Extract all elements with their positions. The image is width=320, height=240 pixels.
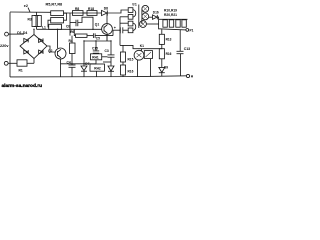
terminal X1 <box>5 32 24 36</box>
svg-text:tr1: tr1 <box>132 2 137 6</box>
svg-text:C8: C8 <box>66 25 70 29</box>
resistor R16 <box>121 62 134 77</box>
diode D16 <box>149 11 159 30</box>
svg-text:P1: P1 <box>190 29 194 33</box>
diode D2 <box>39 38 43 42</box>
winding W3 <box>140 21 147 28</box>
svg-text:H: H <box>191 75 194 79</box>
wire C8 drop <box>69 13 71 36</box>
pin 4 <box>128 28 133 33</box>
diode D3 <box>24 50 28 54</box>
resistor R4 <box>69 36 76 65</box>
wire winding left link <box>141 9 143 24</box>
terminal P1 <box>186 29 194 33</box>
wire collector drop <box>57 29 59 48</box>
svg-text:R16: R16 <box>128 70 134 74</box>
wire base bus <box>37 28 102 30</box>
svg-text:D1-D4: D1-D4 <box>17 31 27 35</box>
svg-text:D7: D7 <box>85 62 89 66</box>
svg-text:R3: R3 <box>28 18 32 22</box>
wire Q1 emitter joint <box>106 36 108 41</box>
diode D8 <box>102 7 109 16</box>
wire mid node <box>84 40 111 42</box>
wire left vertical <box>9 12 11 77</box>
diode D11 <box>108 66 114 77</box>
svg-text:R20,R21: R20,R21 <box>164 13 177 17</box>
svg-text:R15: R15 <box>128 58 134 62</box>
svg-text:D8: D8 <box>104 7 108 11</box>
terminal X2 <box>4 61 17 65</box>
svg-text:220v: 220v <box>0 44 9 48</box>
svg-text:R6: R6 <box>70 30 74 34</box>
capacitor C8 <box>66 17 93 29</box>
svg-text:Q2: Q2 <box>48 49 53 53</box>
winding arc A <box>133 10 136 18</box>
resistor R13 <box>159 29 171 44</box>
wire winding W3 out <box>146 23 158 25</box>
resistor R3 <box>28 12 40 26</box>
svg-text:R10,R19: R10,R19 <box>164 8 177 12</box>
svg-text:R5,R7,R8: R5,R7,R8 <box>46 2 63 6</box>
svg-text:C13: C13 <box>184 47 190 51</box>
resistors R10,R19,R20,R21 <box>159 8 188 27</box>
pin 3 <box>128 21 133 26</box>
capacitor C12 <box>113 26 128 36</box>
wire relay rail <box>120 45 162 48</box>
resistors R5,R7,R8 chain <box>46 2 67 29</box>
resistor R14 <box>159 44 171 58</box>
svg-text:RH2: RH2 <box>94 66 101 70</box>
wire primary drop <box>119 17 121 46</box>
junction dots <box>33 29 120 65</box>
wire bottom rail <box>10 76 186 77</box>
svg-text:RH1: RH1 <box>92 56 99 60</box>
terminal H <box>186 74 193 78</box>
winding arc B <box>133 23 136 31</box>
resistor RH1 <box>91 54 102 60</box>
bridge rectifier D1-D4 <box>17 29 47 63</box>
fuse R1 <box>17 60 34 73</box>
resistor R8 <box>73 7 84 15</box>
svg-text:+: + <box>114 26 117 30</box>
node e2 <box>24 4 30 12</box>
pin 1 <box>128 8 133 13</box>
relay K1 <box>134 44 152 77</box>
wire P1 rail <box>159 29 186 30</box>
wire RH2 to C3 column <box>103 61 111 63</box>
winding W2 <box>142 13 149 20</box>
capacitor C3 <box>102 41 115 66</box>
svg-text:R16: R16 <box>166 52 172 56</box>
svg-text:K1: K1 <box>140 44 144 48</box>
resistor R6 <box>70 29 93 37</box>
transistor Q2 <box>48 48 66 77</box>
diode D4 <box>39 50 43 54</box>
transistor Q1 <box>95 13 113 41</box>
wire emitter node <box>61 63 97 65</box>
resistor RH2 <box>90 60 105 77</box>
svg-text:C5: C5 <box>96 36 100 40</box>
diode D9 <box>159 59 169 77</box>
transformer tr1 <box>120 2 149 32</box>
resistor R15 <box>121 45 134 62</box>
svg-text:D16: D16 <box>153 11 159 15</box>
capacitor C4 <box>67 60 76 77</box>
core <box>138 5 140 29</box>
svg-text:R13: R13 <box>166 38 172 42</box>
resistor R18 <box>83 7 97 15</box>
capacitor C5 <box>93 33 113 40</box>
winding W1 <box>142 5 149 12</box>
svg-text:C15: C15 <box>92 47 98 51</box>
svg-text:C3: C3 <box>105 49 109 53</box>
svg-text:alarm-sa.narod.ru: alarm-sa.narod.ru <box>2 83 43 89</box>
svg-text:Q1: Q1 <box>95 23 100 27</box>
diode D7 <box>81 41 90 77</box>
wire top rail <box>10 11 51 13</box>
capacitor C15 <box>92 41 99 54</box>
svg-text:R1: R1 <box>19 68 23 72</box>
inductor L1 <box>34 16 46 30</box>
pin 2 <box>128 15 133 20</box>
capacitor C13 <box>177 30 191 76</box>
wire bridge out <box>47 46 55 52</box>
diode D1 <box>24 38 28 42</box>
svg-text:e2: e2 <box>24 4 28 8</box>
